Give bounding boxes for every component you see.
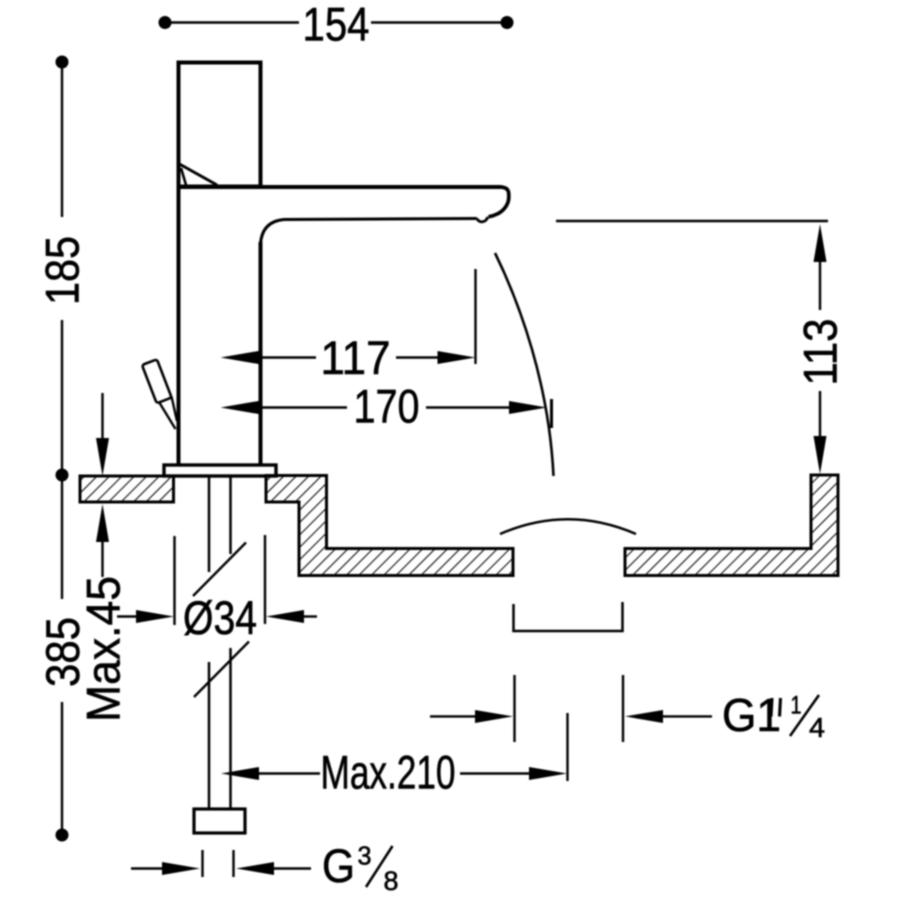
dimension 385 line upper segment: [61, 481, 63, 599]
dimension 170 line left segment: [258, 406, 347, 408]
supply pipe left edge upper segment: [208, 476, 211, 572]
spout tip outlet face: [489, 187, 509, 217]
pipe break slash lower: [194, 642, 249, 698]
dimension 117 left arrowhead at faucet axis: [221, 351, 259, 364]
dimension Max.210 line left segment: [258, 772, 320, 774]
dimension G3/8 left leader line: [131, 867, 168, 869]
dimension 117 extension line at aerator: [474, 269, 476, 364]
dimension 385 bottom dot: [56, 829, 69, 842]
dimension G1 1/4 left extension line: [513, 675, 515, 742]
svg-text:113: 113: [794, 319, 847, 386]
dimension G1 1/4 right arrowhead: [625, 710, 663, 723]
dimension G1 1/4 right leader line: [662, 715, 712, 717]
base flange escutcheon: [164, 465, 276, 476]
dimension Max.210 left arrowhead at faucet axis: [221, 767, 259, 780]
water stream arc: [495, 253, 554, 476]
dimension O34 left leader line: [117, 615, 140, 617]
dimension 185 line lower segment: [61, 320, 63, 469]
lever stem upper line: [172, 397, 178, 422]
dimension 385 line lower segment: [61, 702, 63, 829]
dimension O34 left arrowhead: [136, 610, 174, 623]
svg-text:117: 117: [321, 331, 391, 384]
spout underside edge: [261, 219, 478, 245]
faucet handle body: [179, 63, 261, 187]
tick on water stream at 170 arrow: [550, 399, 553, 428]
dimension G3/8 left tick line: [201, 850, 203, 877]
svg-text:1: 1: [791, 692, 802, 720]
countertop left slab (hatched cross-section): [80, 476, 174, 502]
svg-text:Ø34: Ø34: [183, 591, 257, 644]
dimension O34 left extension line: [173, 536, 175, 625]
svg-text:Max.45: Max.45: [77, 576, 130, 722]
lever stem lower line: [159, 402, 176, 429]
dimension Max.45 down arrowhead: [96, 438, 109, 476]
supply pipe right edge upper segment: [229, 476, 232, 554]
fraction slash of 1/4: [790, 695, 819, 736]
dimension 185 line upper segment: [61, 68, 63, 217]
dimension G1 1/4 right extension line: [622, 675, 624, 742]
inch double-prime tick 2: [780, 698, 781, 717]
inch double-prime tick 1: [771, 698, 772, 717]
svg-text:3: 3: [358, 841, 372, 871]
fraction slash of 3/8: [366, 846, 393, 887]
supply pipe right edge lower segment: [229, 648, 232, 809]
dimension 113 line upper segment: [819, 260, 821, 310]
lever paddle (side view): [142, 359, 172, 403]
svg-text:4: 4: [809, 712, 825, 743]
dimension Max.210 line right segment: [460, 772, 530, 774]
dimension 170 left arrowhead at faucet axis: [221, 401, 259, 414]
dimension 113 spout height reference line: [556, 220, 828, 222]
dimension G3/8 right leader line: [272, 867, 311, 869]
dimension 154 left end dot: [159, 16, 172, 29]
handle chamfer inner line: [181, 168, 186, 185]
dimension 154 line right segment: [371, 21, 507, 23]
dimension O34 right arrowhead: [266, 610, 304, 623]
supply pipe left edge lower segment: [208, 662, 211, 809]
svg-text:G: G: [322, 839, 355, 892]
dimension 170 right arrowhead at water stream: [509, 401, 547, 414]
pipe break slash upper: [193, 543, 246, 597]
dimension G1 1/4 left arrowhead: [475, 710, 513, 723]
dimension Max.45 up arrowhead: [96, 504, 109, 542]
dimension Max.210 right arrowhead: [529, 767, 567, 780]
dimension O34 right extension line: [264, 535, 266, 624]
dimension 113 line lower segment: [819, 391, 821, 438]
dimension 154 line left segment: [165, 21, 299, 23]
svg-text:154: 154: [303, 0, 370, 51]
basin cross-section right of drain (bowl floor and right rim): [625, 475, 838, 576]
drain tailpiece outline: [514, 602, 623, 631]
svg-text:170: 170: [354, 380, 420, 433]
dimension Max.45 lower leader line: [101, 540, 103, 577]
dimension G3/8 right tick line: [232, 850, 234, 877]
aerator notch: [477, 217, 488, 222]
svg-text:8: 8: [384, 866, 399, 896]
dimension 185 top dot: [56, 56, 69, 69]
dimension 154 right end dot: [501, 16, 514, 29]
dimension G3/8 right arrowhead: [236, 862, 274, 875]
dimension 170 line right segment: [426, 406, 509, 408]
svg-text:Max.210: Max.210: [321, 746, 456, 799]
faucet body left edge: [177, 187, 181, 465]
dimension 117 line right segment: [396, 356, 440, 358]
spout top edge: [177, 185, 502, 189]
dimension 117 right arrowhead: [438, 351, 476, 364]
handle front chamfer line: [179, 164, 218, 186]
pop-up waste dome arc: [500, 519, 636, 534]
dimension G1 1/4 left leader line: [430, 715, 478, 717]
dimension G3/8 left arrowhead: [162, 862, 200, 875]
dimension O34 right leader line: [301, 615, 317, 617]
dimension Max.45 upper leader line: [101, 393, 103, 440]
dimension 113 up arrowhead: [814, 224, 827, 262]
svg-text:185: 185: [36, 236, 89, 305]
dimension Max.210 right extension line: [566, 713, 568, 781]
dimension 117 line left segment: [258, 356, 316, 358]
dimension 185/385 middle dot at countertop: [56, 469, 69, 482]
connection nut G3/8: [194, 809, 245, 833]
dimension 113 down arrowhead: [814, 436, 827, 474]
basin cross-section left of drain (deck, step wall, bowl floor): [266, 476, 513, 576]
faucet body right edge: [259, 242, 263, 465]
